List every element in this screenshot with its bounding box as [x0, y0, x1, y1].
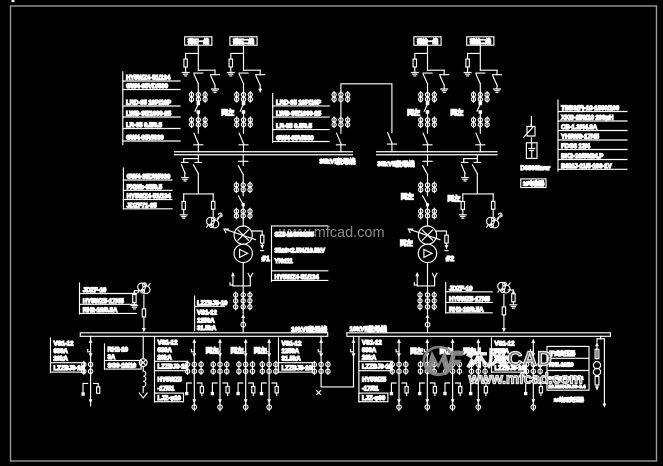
fuse FU3: [142, 309, 145, 317]
wire cap feeder: [530, 116, 532, 125]
main transformer bay T2: [400, 155, 454, 333]
10kV PT spec table left: [80, 283, 137, 314]
wire earth branch: [214, 70, 216, 88]
wire to bus: [243, 145, 245, 152]
table frame line: [445, 283, 447, 314]
wire earth branch: [443, 70, 445, 88]
arrester earth arrow: [446, 243, 448, 245]
wire earth branch: [259, 70, 261, 88]
wire to bus: [197, 145, 199, 152]
svg-text:RH2-10: RH2-10: [108, 346, 129, 353]
feeder B5 spec table: [492, 338, 526, 373]
station transformer bay: [593, 336, 606, 408]
fuse FU1: [212, 201, 215, 209]
wire junction to earth-switch branch: [480, 69, 497, 71]
line name box WL3: [414, 37, 441, 45]
35kV bus tie bay: [332, 84, 396, 152]
svg-text:同左: 同左: [400, 238, 413, 247]
ground: [227, 73, 234, 76]
svg-text:VS1-12: VS1-12: [197, 310, 217, 317]
wire PT leg: [212, 194, 214, 201]
earthing switch blade: [182, 165, 186, 177]
ground: [180, 215, 187, 218]
wire main: [197, 84, 199, 103]
main transformer bay T1: [224, 155, 271, 333]
wire LV drop: [242, 263, 244, 292]
svg-text:同左: 同左: [254, 346, 267, 355]
svg-text:VS1-12: VS1-12: [282, 340, 302, 347]
svg-text:VS1-12: VS1-12: [158, 339, 178, 346]
wire arrester to ground: [185, 67, 187, 72]
voltage transformer TV4: [498, 282, 510, 293]
circuit breaker QF41: [477, 102, 482, 113]
svg-text:630A: 630A: [54, 348, 69, 355]
35kV incoming line bay WL4: [451, 37, 502, 152]
wire junction to earth-switch branch: [198, 69, 215, 71]
svg-text:35kVⅠ段母线: 35kVⅠ段母线: [319, 156, 356, 165]
10kV bus I PT bay: [131, 283, 150, 332]
35kV bus tie spec table: [273, 93, 330, 142]
35kV bus section II: [377, 152, 497, 155]
boxed row LZZBJ9-10: [155, 361, 188, 370]
boxed row LZZBJ9-10: [51, 363, 85, 372]
ground: [133, 303, 135, 305]
svg-text:1#站用变压器: 1#站用变压器: [554, 397, 584, 404]
line name box WL2: [230, 37, 257, 45]
wire: [427, 192, 429, 196]
earth vee: [139, 393, 147, 398]
wire WL1 drop: [197, 45, 199, 70]
svg-text:LJZ-φ10: LJZ-φ10: [158, 395, 182, 402]
capacitor bank C1: [526, 143, 537, 159]
arrester F3: [413, 59, 416, 67]
wire to bus: [479, 145, 481, 152]
svg-text:20kA: 20kA: [362, 354, 377, 361]
wire LV drop: [427, 263, 429, 292]
wire truck link: [233, 278, 250, 286]
bus tie spec table: [279, 338, 313, 373]
ground: [464, 73, 471, 76]
station aux spec table: [105, 344, 142, 369]
voltage transformer TV2: [487, 217, 499, 228]
CT group bus tie TA5: [332, 92, 350, 103]
wire: [242, 205, 244, 209]
earthing switch QS42: [493, 75, 502, 86]
CT group TA11: [189, 92, 207, 103]
table frame line: [122, 168, 124, 209]
svg-text:1250A: 1250A: [197, 317, 215, 324]
CT group TA71: [234, 182, 252, 193]
transformer T1 HV winding with OLTC: [234, 226, 252, 244]
disconnector blade: [472, 165, 477, 174]
wire main: [427, 113, 429, 133]
svg-text:31.5kA: 31.5kA: [197, 325, 217, 332]
svg-text:RN1-10/20: RN1-10/20: [549, 363, 573, 369]
10kV outgoing feeder A2: [211, 339, 229, 411]
wire to transformer: [242, 219, 244, 226]
35kV bus I PT assembly: [180, 155, 222, 228]
wire: [142, 367, 144, 372]
table frame line: [154, 337, 156, 402]
wire main: [243, 84, 245, 103]
wire to bus: [143, 317, 145, 328]
CT group TA81: [419, 182, 437, 193]
wire disconnect header: [184, 158, 199, 160]
fused cutout: [139, 359, 147, 367]
CT group tie: [312, 361, 330, 374]
10kV outgoing feeder A4: [260, 339, 278, 411]
ground: [441, 89, 448, 92]
svg-text:干式变压器: 干式变压器: [549, 349, 576, 357]
earthing switch static tick: [181, 159, 188, 163]
svg-text:31.5kA: 31.5kA: [282, 355, 302, 362]
OLTC arrow: [408, 229, 440, 240]
wire to bus: [503, 315, 505, 328]
wire junction to earth-switch branch: [244, 69, 261, 71]
transformer T1 spec table: [272, 226, 328, 282]
svg-text:HY5WZ5: HY5WZ5: [158, 376, 183, 383]
wire main: [427, 84, 429, 103]
table frame box: [547, 346, 589, 390]
disconnector static tick: [195, 159, 202, 163]
disconnector QS51: [336, 133, 345, 145]
boxed row SG9-10/10: [105, 361, 142, 370]
10kV feeder bay F1: [82, 336, 100, 406]
plug-in connector: [241, 321, 246, 328]
wire arrester to ground: [414, 67, 416, 72]
table frame line: [278, 338, 280, 373]
wire WL2 drop: [243, 45, 245, 70]
boxed row LZZBJ9-10: [279, 363, 313, 372]
circuit breaker QF11: [195, 102, 200, 113]
wire bypass leg: [603, 339, 605, 404]
svg-text:同左: 同左: [221, 108, 234, 117]
CT group TA82h: [419, 208, 437, 219]
line name box WL4: [467, 37, 494, 45]
feeder A1 spec table: [155, 337, 189, 402]
wire arrester leg: [462, 194, 464, 202]
svg-text:HY5WZ5: HY5WZ5: [362, 376, 387, 383]
spring contact: [248, 273, 252, 277]
wire to PT header: [476, 174, 478, 194]
10kV bus section II: [347, 333, 611, 337]
drawout contact arrow: [241, 314, 245, 318]
CT group TA21: [235, 92, 253, 103]
table frame line: [557, 100, 559, 171]
10kV outgoing feeder A1: [185, 339, 203, 411]
wire PT drop: [143, 295, 145, 309]
fuse FU5: [595, 349, 599, 359]
plug arrow into bus: [502, 328, 506, 332]
svg-text:VS1-12: VS1-12: [362, 339, 382, 346]
ground: [182, 73, 189, 76]
table frame line: [272, 93, 274, 142]
wire: [427, 292, 429, 314]
label box capacitor name: [521, 179, 546, 188]
arrester F2: [229, 59, 232, 67]
wire: [183, 210, 185, 215]
plug-in connector: [425, 321, 430, 328]
10kV bus section I: [80, 333, 327, 337]
wire tie right leg: [353, 352, 355, 387]
svg-text:LZZBJ9-10: LZZBJ9-10: [158, 364, 189, 371]
wire WL3 drop: [427, 45, 429, 70]
spring contact: [432, 273, 436, 277]
voltage transformer TV1: [207, 217, 219, 228]
winding coil: [143, 371, 146, 387]
wire main: [243, 113, 245, 133]
wire: [462, 210, 464, 215]
station transformer ST windings: [593, 362, 600, 369]
wire main: [479, 84, 481, 103]
wire arrester to ground: [230, 67, 232, 72]
drawout curl: [217, 213, 222, 218]
disconnector QS52: [387, 133, 396, 145]
table frame line: [104, 344, 106, 369]
boxed row LZZBJ9-10: [359, 361, 392, 370]
wire riser from bus II: [476, 155, 478, 159]
disconnector QS41: [476, 73, 485, 84]
CT group TA22: [235, 117, 253, 128]
wire to 10kV bus I: [242, 328, 244, 333]
CT group TA41: [471, 92, 489, 103]
disconnector QS33: [423, 133, 432, 145]
svg-text:SZ9-M4000/35: SZ9-M4000/35: [275, 232, 315, 239]
35kV incoming line bay WL3: [407, 37, 448, 152]
arrester earth tick: [445, 250, 448, 252]
svg-text:YNd11: YNd11: [275, 258, 294, 265]
svg-text:630A: 630A: [158, 347, 173, 354]
svg-text:-17/51: -17/51: [362, 386, 379, 393]
wire: [242, 192, 244, 196]
earthing switch static tick: [461, 159, 468, 163]
arrester F10 tap: [508, 290, 513, 294]
boxed row LJZ-90: [359, 393, 388, 402]
CT group TA12: [189, 117, 207, 128]
ground: [411, 73, 418, 76]
wire feeder F1: [90, 336, 92, 341]
arrester earth tick: [261, 250, 264, 252]
35kV incoming line bay WL2: [221, 37, 264, 152]
wire fuse leg: [596, 339, 598, 342]
wire to 10kV bus II: [427, 328, 429, 333]
wire: [142, 387, 144, 393]
drawout truck arrow: [230, 272, 235, 286]
disconnector QS23: [239, 133, 248, 145]
wire arrester to ground: [467, 67, 469, 72]
transformer T1 LV spec table: [195, 296, 228, 332]
earthing switch QS12: [211, 75, 220, 86]
svg-text:35kVⅡ段母线: 35kVⅡ段母线: [377, 159, 415, 168]
wire header from bus II: [597, 336, 604, 339]
wire from bus II: [427, 155, 429, 165]
arrester F4: [466, 59, 469, 67]
disconnector QS21: [239, 73, 248, 84]
svg-text:10kVⅠ段母线: 10kVⅠ段母线: [291, 325, 328, 334]
wire truck link: [417, 278, 434, 286]
arrester earth arrow: [261, 243, 263, 245]
svg-text:www.mfcad.com: www.mfcad.com: [468, 371, 583, 388]
disconnector QS43: [476, 133, 485, 145]
wire: [427, 205, 429, 209]
svg-text:LZZBJ9-10: LZZBJ9-10: [282, 365, 313, 372]
cable bracket: [83, 383, 98, 392]
drawout contact arrow: [426, 314, 430, 318]
35kV PT spec table: [123, 168, 172, 209]
svg-text:3A: 3A: [108, 354, 116, 361]
LV arrow: [596, 385, 598, 386]
bus I tap tick: [239, 160, 248, 162]
svg-text:LJZ-φ90: LJZ-φ90: [362, 395, 386, 402]
arrester F5: [182, 202, 185, 210]
voltage transformer TV3: [138, 283, 150, 294]
table frame line: [358, 337, 360, 402]
svg-text:HY5WZ4-51/134: HY5WZ4-51/134: [126, 74, 171, 81]
wire earth branch: [496, 70, 498, 88]
wire PT leg: [492, 194, 494, 201]
arrester F1: [184, 59, 187, 67]
svg-text:磡石一线: 磡石一线: [188, 37, 210, 45]
svg-text:同左: 同左: [448, 194, 461, 203]
wire PT drop: [503, 294, 505, 307]
breaker drawout: [88, 339, 93, 353]
arrester F10: [512, 294, 515, 302]
wire riser from bus I: [197, 155, 199, 159]
wire from bus I: [242, 155, 244, 165]
svg-text:20kA: 20kA: [54, 355, 69, 362]
svg-text:磡柏一线: 磡柏一线: [417, 37, 439, 45]
35kV bus section I: [175, 152, 353, 155]
CT group TA82: [418, 292, 422, 310]
CT group TA72h: [234, 208, 252, 219]
wire to transformer: [427, 219, 429, 226]
earthing switch QS32: [440, 75, 449, 86]
transformer T1 LV winding delta: [234, 244, 252, 262]
svg-text:同左: 同左: [410, 346, 423, 355]
wire PT header: [184, 193, 214, 195]
wire arrester tap WL1: [186, 53, 199, 59]
earth arrow: [258, 89, 262, 93]
ground: [212, 89, 219, 92]
series reactor L1: [524, 125, 536, 138]
boxed row LZZBJ9-10: [492, 363, 526, 372]
wire to bus: [427, 145, 429, 152]
CT group TA72: [234, 292, 238, 310]
svg-text:LZZBJ9-10: LZZBJ9-10: [54, 365, 85, 372]
svg-text:LZZBJ9-10: LZZBJ9-10: [362, 364, 393, 371]
arrester F6: [461, 202, 464, 210]
wire main: [197, 113, 199, 133]
watermark logo MF: [423, 346, 465, 376]
svg-text:SG9-10/10: SG9-10/10: [108, 362, 137, 369]
10kV outgoing feeder B5: [524, 339, 542, 411]
drawout curl: [497, 213, 502, 218]
svg-text:35±3×2.5%/10.5kV: 35±3×2.5%/10.5kV: [275, 248, 326, 255]
svg-text:#1: #1: [262, 254, 271, 263]
svg-text:沐风CAD: 沐风CAD: [467, 348, 552, 371]
10kV PT spec table right: [446, 283, 493, 314]
circuit breaker QF21: [240, 102, 245, 113]
10kV outgoing feeder B2: [418, 339, 436, 411]
svg-text:VS1-12: VS1-12: [54, 340, 74, 347]
disconnector static tick: [474, 159, 481, 163]
svg-text:-17/51: -17/51: [158, 386, 175, 393]
circuit breaker QF31: [424, 102, 429, 113]
wire: [427, 175, 429, 183]
svg-text:#2: #2: [446, 254, 454, 263]
svg-text:1250A: 1250A: [282, 348, 300, 355]
wire: [242, 292, 244, 314]
wire: [492, 209, 494, 216]
10kV station aux bay (fused): [139, 336, 147, 398]
wire tie left leg: [320, 336, 322, 341]
svg-text:20kA: 20kA: [158, 354, 173, 361]
disconnector QS62 blade: [238, 196, 243, 205]
wire WL4 drop: [479, 45, 481, 70]
CT group bus tie TA6: [332, 117, 350, 128]
CT group: [82, 361, 86, 374]
CT group TA42: [471, 117, 489, 128]
ground: [494, 89, 501, 92]
wire arrester tap WL2: [231, 53, 244, 59]
wire to bus I: [340, 145, 342, 152]
crop artifact dot top edge: [12, 0, 15, 2]
wire: [340, 127, 342, 133]
feeder F1 spec table: [51, 338, 85, 373]
arrester F9 tap: [134, 291, 139, 295]
wire to bus II: [391, 144, 393, 152]
10kV outgoing feeder B1: [390, 339, 408, 411]
earthing switch QS22: [256, 75, 265, 86]
disconnector QS31: [423, 73, 432, 84]
wire HV neutral arrester tap: [252, 231, 262, 235]
disconnector QS13: [194, 133, 203, 145]
10kV outgoing feeder B4: [469, 339, 487, 411]
feeder B1 spec table: [359, 337, 393, 402]
wire: [212, 209, 214, 216]
bypass arrow: [603, 404, 607, 408]
arrester F9: [133, 295, 136, 303]
wire: [242, 175, 244, 183]
disconnector QS72 blade: [423, 196, 428, 205]
wire to PT header: [197, 174, 199, 194]
35kV bus II PT assembly: [448, 155, 503, 228]
table frame line: [491, 338, 493, 373]
10kV bus tie bay: [312, 336, 355, 394]
line name box WL1: [185, 37, 212, 45]
wire HV neutral arrester tap: [437, 231, 447, 235]
table frame line: [194, 296, 196, 331]
wire PT header: [463, 193, 493, 195]
wire arrester leg: [183, 194, 185, 202]
wire: [530, 138, 532, 143]
svg-text:D0800kvar: D0800kvar: [520, 165, 550, 172]
wire arrester tap WL3: [415, 53, 428, 59]
station transformer spec table: [547, 346, 589, 403]
earthing switch blade: [462, 165, 466, 177]
wire junction to earth-switch branch: [428, 69, 445, 71]
10kV bus II PT bay: [498, 282, 517, 332]
svg-text:同左: 同左: [451, 108, 464, 117]
table frame line: [79, 283, 81, 314]
svg-text:630A: 630A: [362, 347, 377, 354]
arrester F7: [261, 235, 264, 243]
svg-text:1#电容器: 1#电容器: [523, 180, 545, 188]
cable arrow: [89, 399, 93, 403]
wire drop: [142, 336, 144, 359]
disconnector blade: [193, 165, 198, 174]
wire arrester tap WL4: [468, 53, 481, 59]
